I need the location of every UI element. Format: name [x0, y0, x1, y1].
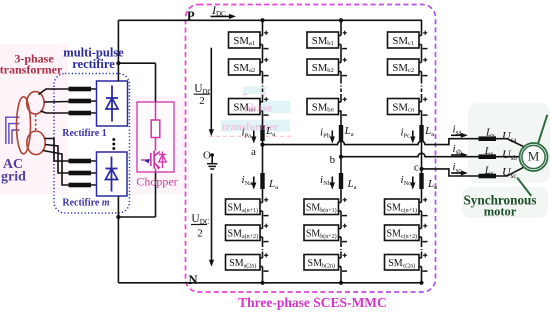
svg-text:a: a — [251, 146, 256, 158]
svg-text:N: N — [188, 273, 197, 287]
svg-text:phase: phase — [244, 103, 272, 115]
svg-text:M: M — [528, 149, 540, 164]
svg-text:P: P — [187, 9, 195, 23]
svg-text:rectifire: rectifire — [72, 57, 115, 71]
svg-text:2: 2 — [197, 228, 203, 240]
svg-text:Three-phase SCES-MMC: Three-phase SCES-MMC — [238, 295, 387, 310]
svg-text:2: 2 — [199, 95, 205, 107]
svg-text:transformer: transformer — [0, 63, 63, 77]
svg-text:Chopper: Chopper — [136, 175, 177, 189]
svg-text:grid: grid — [1, 170, 26, 185]
svg-text:b: b — [330, 154, 336, 166]
svg-text:O: O — [203, 150, 211, 162]
svg-text:Rectifire m: Rectifire m — [62, 198, 110, 209]
svg-text:c: c — [414, 162, 419, 174]
svg-text:motor: motor — [484, 205, 517, 219]
svg-text:Rectifire 1: Rectifire 1 — [62, 128, 107, 139]
